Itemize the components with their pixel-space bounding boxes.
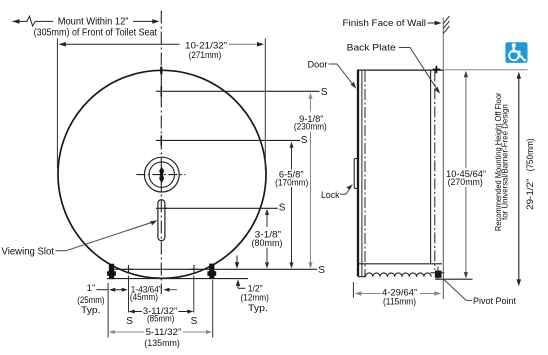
spindle center fastener diamond (159, 167, 164, 184)
hole cross right (190, 265, 199, 274)
cabinet top line (357, 69, 444, 71)
back plate dashed line (434, 70, 436, 270)
foot bar (519, 56, 523, 58)
slot cross tick (156, 207, 167, 209)
footrest diagonal (521, 56, 525, 60)
seat down bar (519, 51, 521, 58)
svg-text:29-1/2”: 29-1/2” (524, 179, 535, 210)
dim 10-21/32 line (60, 43, 180, 45)
circle top mount tick (160, 67, 162, 75)
wheel (509, 51, 519, 61)
dim 3-11/32 line (130, 311, 143, 313)
pivot leader (444, 280, 472, 301)
svg-text:Typ.: Typ. (248, 303, 268, 314)
scalloped bottom edge (358, 273, 431, 277)
S row2 line (156, 139, 300, 141)
viewing slot (158, 200, 165, 241)
svg-text:S: S (279, 203, 286, 214)
svg-text:(750mm): (750mm) (524, 138, 535, 171)
cover circle (58, 70, 266, 278)
bottom S line (114, 268, 317, 270)
dim 5-11/32 line (109, 330, 212, 334)
cabinet back edge (430, 70, 432, 263)
dim 6-5/8 line (289, 142, 293, 269)
dim 1/2 upper arrow (236, 256, 238, 263)
dim 1/2 lower arrow + bracket (237, 284, 239, 288)
svg-text:S: S (321, 87, 328, 98)
left mounting foot (107, 264, 116, 279)
dim 9-1/8 line (308, 93, 312, 269)
dim 3-1/8 line (265, 209, 269, 269)
svg-text:(230mm): (230mm) (294, 121, 327, 132)
spindle outer circle (144, 157, 179, 192)
dim 1in tail and arrows (97, 289, 109, 291)
svg-text:(170mm): (170mm) (275, 177, 308, 188)
wall extension below (442, 70, 444, 299)
hole cross left (124, 265, 133, 274)
back plate leader (399, 48, 438, 91)
svg-text:(271mm): (271mm) (189, 50, 222, 61)
svg-text:Door: Door (308, 59, 328, 70)
door inner line (361, 71, 363, 276)
svg-text:for Universal/Barrier-Free Des: for Universal/Barrier-Free Design (500, 104, 510, 220)
recommended mounting height red text (493, 92, 510, 231)
svg-text:(85mm): (85mm) (147, 314, 174, 325)
dim 10-21/32 extension left (56, 38, 58, 168)
wall hatching (443, 16, 449, 34)
extension line 5-11/32 right (212, 280, 214, 338)
torso (513, 47, 515, 52)
svg-text:Pivot Point: Pivot Point (473, 296, 516, 307)
svg-text:(305mm) of Front of Toilet Sea: (305mm) of Front of Toilet Seat (34, 27, 158, 38)
lock leader (340, 187, 351, 194)
svg-text:(270mm): (270mm) (448, 177, 483, 188)
door front edge (357, 70, 359, 276)
svg-text:Viewing Slot: Viewing Slot (2, 247, 55, 258)
cabinet inner bottom line (358, 263, 442, 265)
dim 4-29/64 extensions (352, 282, 354, 298)
mount-within right arrow (133, 20, 157, 22)
svg-text:Lock: Lock (321, 190, 340, 201)
S point cross row2 (160, 135, 162, 145)
dim 29-1/2 red text (524, 138, 535, 210)
pivot point block (435, 271, 442, 278)
svg-text:5-11/32”: 5-11/32” (146, 327, 182, 338)
top mounting cross (433, 66, 441, 74)
svg-text:(80mm): (80mm) (252, 238, 283, 249)
right mounting foot (207, 264, 216, 280)
dim 29-1/2 line (518, 74, 520, 284)
svg-text:S: S (191, 316, 198, 327)
svg-text:Finish Face of Wall: Finish Face of Wall (343, 18, 427, 29)
handicap accessibility icon (505, 42, 527, 63)
vertical centerline (160, 11, 162, 295)
svg-text:(45mm): (45mm) (130, 292, 158, 303)
viewing slot leader (56, 222, 154, 251)
S row1 line (156, 90, 320, 92)
pivot baseline (435, 278, 473, 280)
mount-within dim arrow left with break (13, 16, 54, 26)
door leader (329, 64, 354, 85)
spindle inner circle (149, 162, 174, 187)
svg-text:1”: 1” (87, 283, 95, 294)
top reference line (445, 69, 528, 71)
dim 10-21/32 extension right (264, 38, 266, 170)
svg-text:(135mm): (135mm) (144, 338, 180, 349)
S row3 line (165, 207, 278, 209)
svg-text:S: S (318, 265, 325, 276)
svg-text:Mount Within 12”: Mount Within 12” (58, 17, 129, 28)
dim 10-45/64 line (464, 71, 468, 279)
arm (513, 51, 521, 53)
bottom baseline (107, 278, 248, 280)
svg-text:Typ.: Typ. (81, 305, 101, 316)
finish face arrow (428, 22, 437, 24)
head (512, 43, 516, 47)
extension line 5-11/32 left (107, 283, 109, 338)
S point cross row1 (160, 86, 162, 96)
wall line (442, 18, 444, 71)
extension line holes right (193, 276, 195, 313)
lock bump (354, 159, 357, 189)
svg-text:(115mm): (115mm) (383, 297, 416, 308)
svg-text:Back Plate: Back Plate (347, 43, 396, 54)
svg-text:S: S (126, 316, 133, 327)
door dash-dot line (364, 71, 366, 277)
pivot cross (431, 267, 445, 280)
horizontal centerline of spindle (136, 174, 185, 176)
dim 4-29/64 arrows (355, 291, 442, 296)
extension line holes left (128, 276, 130, 313)
dim 1-43/64 right arrow (165, 289, 177, 291)
svg-text:S: S (301, 135, 308, 146)
